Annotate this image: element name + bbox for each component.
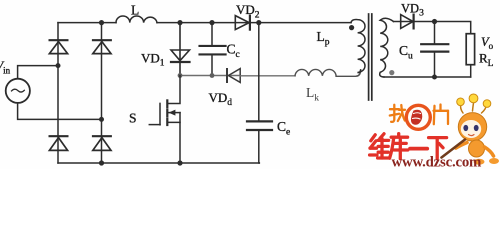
diode bridge bottom-left (49, 136, 67, 150)
source Vin (AC) (6, 79, 30, 103)
character wei (red) (370, 134, 389, 158)
wire: bottom rail (58, 162, 259, 164)
capacitor Cu (421, 22, 448, 78)
svg-text:Cu: Cu (399, 43, 413, 62)
capacitor Ce (247, 121, 272, 163)
node: clamp junction at Cc (gray) (210, 73, 215, 78)
magnifier ring with red chip figure (406, 105, 430, 129)
wire: bridge right leg (101, 23, 103, 163)
svg-text:Vo: Vo (481, 35, 494, 51)
wire: VD3 to RL top corner (414, 22, 471, 34)
node: output top junction at Cu (432, 19, 437, 24)
svg-text:L: L (131, 3, 139, 18)
MOSFET S (149, 76, 180, 164)
diode bridge top-right (93, 40, 111, 53)
wire: top rail from L to VD2 anode (157, 22, 250, 24)
watermark dzsc logo (370, 94, 499, 170)
wire: secondary top to VD3 (394, 21, 414, 23)
wire: Ce column from top rail down (258, 23, 260, 120)
character pian (chip) orange (434, 105, 449, 125)
resistor RL (466, 34, 474, 65)
node: bottom rail at bridge right leg (99, 160, 104, 165)
wire: Vin bottom lead (18, 103, 102, 119)
diode bridge top-left (49, 40, 67, 53)
mascot feet (474, 159, 485, 165)
wire: RL bottom lead (470, 65, 472, 77)
wire: VDd to Lk (gray) (240, 75, 295, 77)
inductor Lk (295, 69, 361, 76)
node: bottom rail at MOSFET source (177, 160, 182, 165)
transformer core (368, 14, 370, 100)
transformer primary Lp (351, 20, 365, 73)
mascot antenna balls (457, 98, 465, 106)
svg-text:Lp: Lp (317, 29, 330, 48)
mascot eyes (463, 125, 468, 131)
node: Lp polarity dot (349, 25, 354, 30)
svg-text:VDd: VDd (209, 90, 233, 108)
svg-text:Lk: Lk (306, 85, 319, 104)
diode VD3 (401, 15, 414, 29)
diode bridge bottom-right (93, 136, 111, 150)
wire: clamp rail (gray) VD1 to VDd (180, 75, 240, 77)
diode VD1 (171, 23, 190, 76)
wire: top rail from VD2 cathode to transformer primary (250, 22, 351, 24)
wire: Vin top lead (18, 66, 58, 79)
character xia (red) (429, 138, 447, 159)
transformer secondary (380, 18, 394, 77)
mascot body (469, 140, 485, 157)
node: Vin top junction on left leg (56, 63, 61, 68)
wire: top rail from bridge left leg to inductor L (58, 22, 116, 24)
svg-text:RL: RL (479, 51, 494, 70)
svg-text:S: S (129, 111, 137, 126)
mascot mouth (469, 135, 475, 136)
node: top-rail junction after VD2 (256, 20, 261, 25)
node: clamp junction at VD1 (gray) (178, 73, 183, 78)
diode VD2 (235, 16, 250, 30)
wire: output bottom rail (384, 76, 471, 78)
diode VDd (227, 69, 240, 83)
mascot face (461, 120, 481, 138)
mascot pencil (442, 140, 466, 158)
mascot left arm (456, 143, 467, 149)
character zhao (find) orange (390, 105, 405, 122)
capacitor Cc (200, 23, 226, 76)
svg-text:Cc: Cc (227, 42, 240, 61)
wire: bridge left leg (57, 23, 59, 163)
mascot head (458, 113, 486, 141)
node: top-rail junction VD1 column (177, 20, 182, 25)
node: top-rail junction Cc column (209, 20, 214, 25)
character ku (red) (390, 134, 408, 159)
node: top-rail junction at bridge right leg (99, 20, 104, 25)
svg-text:Vin: Vin (0, 59, 11, 76)
mascot right arm (485, 147, 494, 156)
inductor L (116, 16, 157, 23)
svg-text:www.dzsc.com: www.dzsc.com (392, 154, 483, 169)
node: output bottom junction at Cu (432, 75, 437, 80)
character yi (red) (410, 147, 427, 151)
node: secondary polarity dot (gray) (389, 70, 394, 75)
node: Vin bottom junction on right leg (99, 117, 104, 122)
svg-text:Ce: Ce (277, 119, 290, 138)
svg-text:VD1: VD1 (141, 51, 165, 69)
mascot antenna stalks (461, 104, 463, 113)
